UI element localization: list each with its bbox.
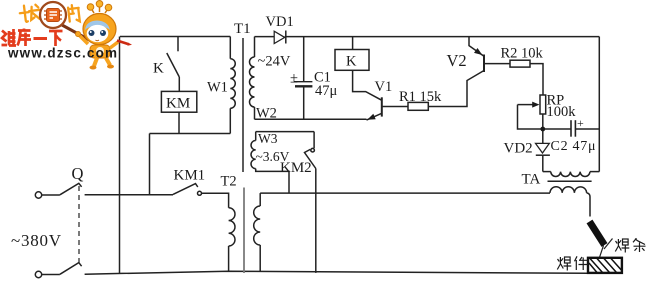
- svg-text:~380V: ~380V: [11, 231, 62, 250]
- svg-text:VD1: VD1: [266, 14, 294, 30]
- svg-text:KM: KM: [166, 96, 190, 112]
- svg-text:W1: W1: [207, 80, 228, 96]
- svg-text:~24V: ~24V: [258, 54, 291, 70]
- svg-text:R2 10k: R2 10k: [501, 46, 544, 62]
- svg-text:V1: V1: [375, 79, 393, 95]
- svg-text:VD2: VD2: [504, 141, 533, 157]
- svg-text:T2: T2: [221, 174, 237, 190]
- svg-text:47μ: 47μ: [315, 83, 338, 99]
- svg-text:+: +: [577, 116, 584, 130]
- svg-text:R1 15k: R1 15k: [399, 89, 442, 105]
- svg-text:100k: 100k: [547, 104, 577, 120]
- svg-text:W3: W3: [258, 131, 278, 146]
- svg-text:W2: W2: [256, 106, 277, 122]
- svg-text:±: ±: [290, 71, 298, 87]
- svg-text:C2 47μ: C2 47μ: [551, 139, 596, 154]
- svg-text:www.dzsc.com: www.dzsc.com: [7, 46, 117, 61]
- svg-text:K: K: [153, 61, 164, 77]
- svg-text:KM1: KM1: [174, 168, 206, 184]
- svg-text:Q: Q: [72, 164, 84, 183]
- svg-text:TA: TA: [522, 172, 541, 188]
- svg-text:V2: V2: [447, 51, 467, 70]
- svg-text:K: K: [346, 54, 357, 70]
- svg-text:KM2: KM2: [280, 160, 312, 176]
- svg-text:T1: T1: [234, 21, 251, 37]
